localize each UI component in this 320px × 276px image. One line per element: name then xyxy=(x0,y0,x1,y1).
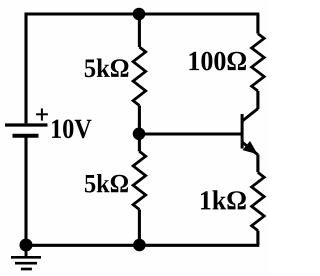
transistor Q1 emitter lead xyxy=(242,142,258,155)
transistor Q1 base bar xyxy=(241,114,244,149)
label R2 value 5k ohm xyxy=(85,174,128,193)
wire R3 to collector xyxy=(256,91,259,109)
wire R1 to middle node xyxy=(138,106,141,135)
wire top node to R1 xyxy=(138,14,141,47)
label V1 value 10V xyxy=(52,120,92,139)
wire emitter to R4 xyxy=(256,155,259,173)
wire left upper (battery + to top rail) xyxy=(24,13,27,124)
wire top rail to R3 xyxy=(256,14,259,34)
node ground junction dot xyxy=(20,239,33,252)
resistor R2 5k (lower middle) zigzag xyxy=(133,151,146,209)
battery V1 top plate (+, long) xyxy=(5,123,48,126)
resistor R4 1k (lower right) zigzag xyxy=(252,172,265,230)
resistor R3 100ohm (upper right) zigzag xyxy=(252,34,265,91)
battery plus sign xyxy=(36,108,48,120)
node middle junction dot (base node) xyxy=(133,128,146,141)
wire R2 to bottom node xyxy=(138,210,141,246)
resistor R1 5k (upper middle) zigzag xyxy=(133,47,146,106)
wire bottom rail xyxy=(26,244,259,247)
label R3 value 100 ohm xyxy=(190,52,247,71)
battery V1 bottom plate (-, short thick) xyxy=(13,134,39,138)
node top junction dot xyxy=(133,8,146,21)
wire R4 to bottom rail xyxy=(256,231,259,245)
wire base (middle node to Q1 base) xyxy=(139,132,242,135)
transistor Q1 collector lead xyxy=(242,109,258,122)
wire top rail xyxy=(25,12,260,15)
transistor Q1 emitter arrowhead xyxy=(244,142,257,153)
ground symbol xyxy=(11,245,41,269)
node bottom junction dot xyxy=(133,239,146,252)
label R4 value 1k ohm xyxy=(201,190,246,209)
label R1 value 5k ohm xyxy=(85,59,129,78)
wire middle node to R2 xyxy=(138,134,141,151)
wire left lower (battery - to bottom rail) xyxy=(24,136,27,245)
